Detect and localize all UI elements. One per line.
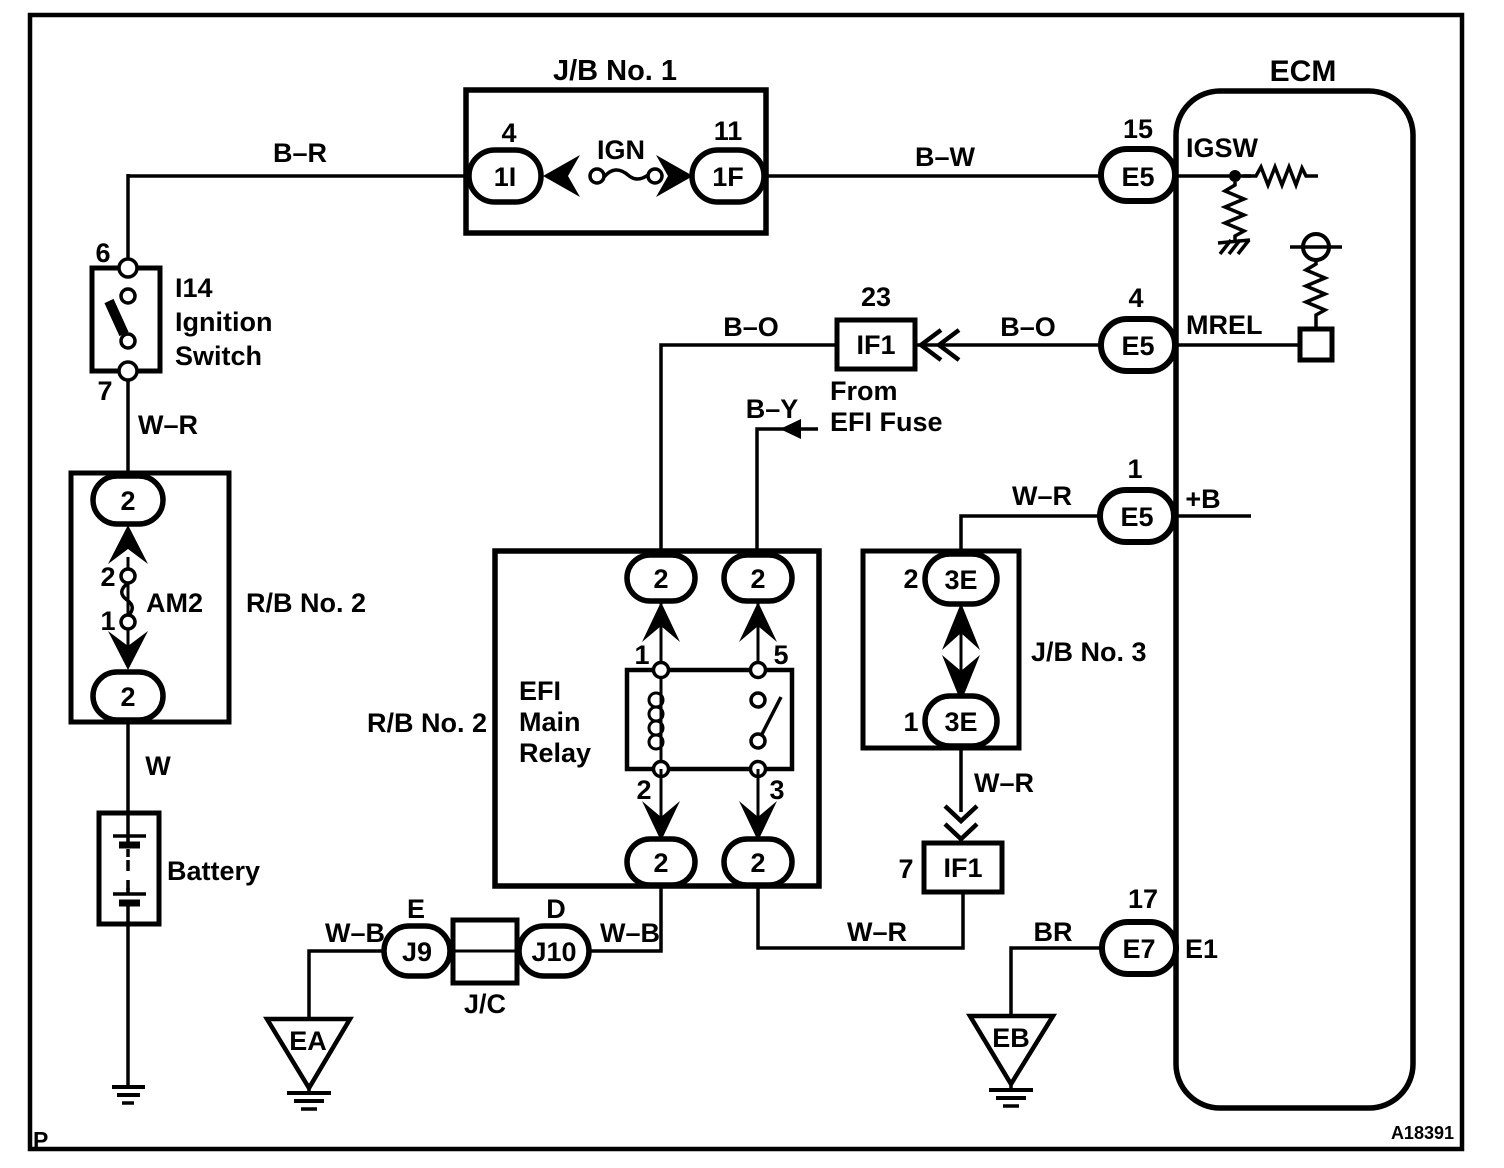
node junction dot IGSW	[1229, 170, 1241, 182]
svg-text:2: 2	[750, 848, 765, 878]
relay block R/B No. 2 (EFI main relay) box	[495, 551, 819, 886]
connector 1I pin 4	[469, 150, 541, 202]
svg-text:I14: I14	[175, 273, 213, 303]
svg-text:7: 7	[97, 376, 112, 406]
wire MREL internal	[1175, 343, 1300, 347]
svg-text:2: 2	[653, 564, 668, 594]
driver block square MREL	[1300, 329, 1332, 360]
svg-text:23: 23	[861, 282, 891, 312]
svg-text:Ignition: Ignition	[175, 307, 272, 337]
connector 3E pin 1	[925, 696, 997, 746]
junction block J/B No. 3 box	[863, 551, 1019, 748]
arrow down relay right	[739, 801, 777, 841]
svg-text:J10: J10	[531, 937, 576, 967]
connector J9	[384, 926, 450, 976]
svg-text:IF1: IF1	[856, 330, 895, 360]
svg-text:3: 3	[769, 775, 784, 805]
connector 2 relay bottom-right	[724, 839, 792, 885]
ignition switch I14	[92, 268, 160, 371]
ground EA hatches	[287, 1088, 331, 1109]
svg-text:6: 6	[95, 238, 110, 268]
svg-text:4: 4	[1128, 283, 1143, 313]
connector 2 top (AM2)	[93, 476, 163, 524]
svg-text:1: 1	[1127, 454, 1142, 484]
wire +B internal	[1175, 514, 1251, 518]
svg-text:IF1: IF1	[943, 853, 982, 883]
arrow up relay left	[642, 602, 680, 642]
svg-text:E5: E5	[1120, 502, 1153, 532]
wire battery to ground	[126, 924, 130, 1087]
ground internal (hatch)	[1218, 240, 1250, 254]
svg-text:IGSW: IGSW	[1186, 133, 1259, 163]
svg-text:+B: +B	[1185, 484, 1220, 514]
svg-text:W–R: W–R	[1012, 481, 1072, 511]
wire W-R from E5 pin1	[961, 516, 1100, 554]
svg-text:E5: E5	[1121, 162, 1154, 192]
wire relay bottom-right to IF1	[758, 885, 963, 948]
svg-text:J/B No. 3: J/B No. 3	[1031, 637, 1147, 667]
wire relay bottom-left to J10	[588, 885, 661, 951]
wire B-Y with arrow	[757, 429, 818, 557]
svg-text:11: 11	[714, 116, 743, 146]
relay switch contact	[751, 693, 765, 748]
svg-text:W–B: W–B	[325, 918, 385, 948]
svg-text:IGN: IGN	[597, 135, 645, 165]
svg-text:15: 15	[1123, 114, 1153, 144]
fuse block IF1 pin 7	[924, 843, 1002, 892]
svg-text:Switch: Switch	[175, 341, 262, 371]
arrow up relay right	[739, 602, 777, 642]
svg-text:5: 5	[773, 640, 788, 670]
svg-text:EFI Fuse: EFI Fuse	[830, 407, 943, 437]
wire W-R vertical	[126, 380, 130, 477]
connector 3E pin 2	[925, 554, 997, 604]
svg-text:BR: BR	[1034, 917, 1073, 947]
svg-text:2: 2	[120, 682, 135, 712]
svg-text:3E: 3E	[944, 707, 977, 737]
connector 2 relay top-right	[724, 555, 792, 601]
switch contacts I14	[119, 259, 137, 380]
wire W vertical	[126, 722, 130, 813]
switch lever I14	[109, 301, 124, 334]
arrow right (to 1F)	[656, 155, 693, 197]
connector 1F pin 11	[692, 150, 764, 202]
svg-text:1: 1	[100, 606, 115, 636]
battery plates	[113, 813, 146, 924]
svg-text:From: From	[830, 376, 898, 406]
arrow chevrons down to IF1	[945, 806, 977, 839]
connector 2 bottom (AM2)	[93, 672, 163, 720]
battery	[99, 813, 159, 924]
svg-text:B–O: B–O	[723, 312, 779, 342]
svg-text:17: 17	[1128, 884, 1158, 914]
svg-text:AM2: AM2	[146, 588, 203, 618]
svg-text:2: 2	[100, 562, 115, 592]
wire J9 to EA ground	[309, 951, 384, 1019]
wire BR to E7	[1011, 948, 1101, 1016]
junction block J/B No. 1 box	[466, 90, 766, 233]
svg-text:A18391: A18391	[1391, 1123, 1454, 1143]
svg-text:J9: J9	[402, 937, 432, 967]
svg-text:1F: 1F	[712, 162, 744, 192]
svg-text:7: 7	[898, 854, 913, 884]
svg-text:Battery: Battery	[167, 856, 260, 886]
relay coil	[649, 677, 663, 763]
svg-text:E7: E7	[1122, 934, 1155, 964]
svg-text:W–R: W–R	[974, 768, 1034, 798]
svg-text:2: 2	[653, 848, 668, 878]
ground battery	[112, 1087, 145, 1103]
junction connector J/C box	[453, 920, 517, 983]
fuse IGN symbol	[590, 169, 662, 183]
wire pin5 lead	[757, 601, 760, 670]
svg-text:P: P	[33, 1127, 48, 1153]
svg-text:W: W	[145, 751, 171, 781]
svg-text:Relay: Relay	[519, 738, 591, 768]
wire pin3 lead	[757, 769, 760, 839]
wire B-O left segment	[661, 345, 837, 557]
svg-text:E1: E1	[1185, 934, 1218, 964]
connector E7 pin 17	[1102, 922, 1176, 974]
connector E5 pin 4	[1101, 319, 1175, 371]
relay inner box	[627, 670, 792, 769]
connector 2 relay top-left	[627, 555, 695, 601]
arrow up 3E	[942, 603, 980, 650]
wire 3E to IF1	[959, 746, 963, 812]
fuse block IF1 pin 23	[837, 320, 915, 369]
resistor R-pulldown vertical	[1225, 182, 1244, 240]
ground EB hatches	[989, 1084, 1033, 1106]
svg-text:B–R: B–R	[273, 138, 327, 168]
svg-text:J/C: J/C	[464, 989, 506, 1019]
svg-text:J/B No. 1: J/B No. 1	[553, 55, 677, 87]
arrow up AM2	[108, 525, 148, 564]
svg-text:EFI: EFI	[519, 676, 561, 706]
wire pin2 lead	[660, 769, 663, 839]
wire between 3E	[960, 604, 963, 696]
resistor R-mrel vertical	[1306, 260, 1325, 329]
svg-text:R/B No. 2: R/B No. 2	[246, 588, 366, 618]
svg-text:B–W: B–W	[915, 142, 976, 172]
relay pin circles	[654, 663, 766, 777]
arrow chevrons into IF1	[921, 330, 959, 360]
wire B-O right segment	[915, 343, 1102, 347]
svg-text:W–B: W–B	[600, 918, 660, 948]
arrow down 3E	[942, 655, 980, 702]
resistor R-igsw horizontal	[1243, 167, 1318, 185]
connector 2 relay bottom-left	[627, 839, 695, 885]
svg-text:4: 4	[501, 118, 516, 148]
svg-text:2: 2	[750, 564, 765, 594]
connector E5 pin 15	[1101, 149, 1175, 201]
wire IGSW internal	[1175, 174, 1251, 178]
arrow B-Y head	[780, 419, 801, 439]
svg-text:B–Y: B–Y	[746, 394, 799, 424]
svg-text:3E: 3E	[944, 565, 977, 595]
svg-text:E: E	[407, 894, 425, 924]
arrow down AM2	[108, 631, 148, 670]
node circle (internal supply)	[1290, 234, 1342, 260]
relay block R/B No. 2 (left, AM2) box	[71, 473, 229, 722]
svg-text:1I: 1I	[494, 162, 517, 192]
wire B-W	[764, 174, 1102, 178]
svg-text:R/B No. 2: R/B No. 2	[367, 708, 487, 738]
arrow down relay left	[642, 801, 680, 841]
arrow left (to 1I)	[543, 155, 580, 197]
wire pin1 lead	[660, 601, 663, 670]
svg-text:D: D	[546, 894, 566, 924]
svg-text:1: 1	[903, 707, 918, 737]
svg-text:B–O: B–O	[1000, 312, 1056, 342]
svg-text:ECM: ECM	[1270, 55, 1337, 88]
connector E5 pin 1	[1100, 490, 1174, 542]
svg-text:W–R: W–R	[847, 917, 907, 947]
ground EB triangle	[970, 1016, 1053, 1084]
svg-text:W–R: W–R	[138, 410, 198, 440]
svg-text:EA: EA	[289, 1026, 327, 1056]
ground EA triangle	[267, 1019, 350, 1088]
svg-text:2: 2	[636, 775, 651, 805]
svg-text:2: 2	[120, 486, 135, 516]
svg-text:1: 1	[634, 640, 649, 670]
fuse AM2	[121, 569, 135, 629]
svg-text:Main: Main	[519, 707, 581, 737]
relay switch arm	[761, 697, 781, 736]
svg-text:E5: E5	[1121, 331, 1154, 361]
svg-text:EB: EB	[992, 1023, 1030, 1053]
wire fuse lead	[127, 557, 130, 660]
connector J10	[519, 926, 589, 976]
wire B-R horizontal top	[128, 174, 471, 261]
ECM U1 (rounded enclosure)	[1176, 91, 1413, 1108]
svg-text:MREL: MREL	[1186, 310, 1263, 340]
svg-text:2: 2	[903, 564, 918, 594]
